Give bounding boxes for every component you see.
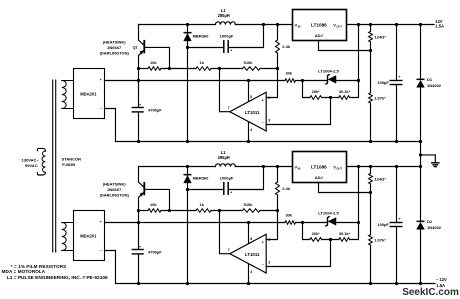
node switch node / MBR360 cathode (bottom) bbox=[186, 165, 189, 168]
node 510k/2.4k/pin2 junction (top) bbox=[276, 67, 279, 70]
svg-text:1000µF: 1000µF bbox=[220, 176, 234, 181]
svg-text:−: − bbox=[100, 107, 102, 111]
wire L1 to regulator Vin (bottom) bbox=[235, 166, 292, 168]
node pin8 supply junction (bottom) bbox=[247, 221, 250, 224]
node L1 output / 1000uF riser (bottom) bbox=[262, 165, 265, 168]
svg-text:8: 8 bbox=[250, 95, 252, 99]
pin 8 V+ (top) bbox=[248, 81, 250, 102]
svg-text:P-8685: P-8685 bbox=[62, 162, 76, 167]
resistor 30.1k* (top) bbox=[339, 96, 350, 100]
transformer T1 core bbox=[52, 80, 54, 252]
capacitor 100uF (bottom) bbox=[396, 167, 398, 222]
capacitor 4700uF (bottom) bbox=[132, 249, 144, 250]
resistor 510k (bottom) bbox=[243, 209, 261, 213]
wire regulator output (bottom) bbox=[347, 166, 421, 168]
svg-text:LT1086: LT1086 bbox=[311, 23, 327, 28]
node pin4 ground (top) bbox=[247, 140, 250, 143]
inductor L1 285uH (top) bbox=[215, 22, 235, 25]
svg-text:MDA201: MDA201 bbox=[80, 91, 97, 96]
wire switch node to L1 (top) bbox=[139, 24, 216, 26]
resistor 1.07k* (top) bbox=[370, 42, 372, 93]
svg-text:1k: 1k bbox=[200, 202, 205, 207]
node divider midpoint (top) bbox=[329, 96, 332, 99]
node pin8 supply junction (top) bbox=[247, 79, 250, 82]
svg-text:– 12V: – 12V bbox=[436, 277, 447, 282]
svg-text:4: 4 bbox=[250, 128, 252, 132]
node reference/anode junction (top) bbox=[357, 79, 360, 82]
wire ADJ (bottom) bbox=[319, 183, 371, 193]
wire regulator output (top) bbox=[347, 24, 435, 26]
node pin4 ground (bottom) bbox=[247, 282, 250, 285]
svg-text:LT1086: LT1086 bbox=[311, 165, 327, 170]
svg-text:30k: 30k bbox=[285, 212, 292, 217]
svg-text:1.07k*: 1.07k* bbox=[374, 95, 386, 100]
ground bbox=[421, 155, 436, 163]
svg-text:(DARLINGTON): (DARLINGTON) bbox=[100, 50, 130, 55]
node divider midpoint (bottom) bbox=[329, 238, 332, 241]
resistor 20k* (top) bbox=[310, 96, 322, 100]
resistor 10k (top) bbox=[148, 67, 161, 71]
diode MBR360 (top) bbox=[187, 25, 189, 142]
svg-text:10k: 10k bbox=[150, 202, 157, 207]
svg-text:IN: IN bbox=[298, 167, 301, 171]
diode D1 1N4002 bbox=[420, 25, 422, 79]
resistor 2.4k (bottom) bbox=[277, 167, 279, 183]
node switch node / MBR360 cathode (top) bbox=[186, 23, 189, 26]
node 1k/510k/comparator output junction (bottom) bbox=[218, 209, 221, 212]
resistor 1.07k* (bottom) bbox=[370, 184, 372, 235]
node 30k/LT1004/divider junction (bottom) bbox=[301, 221, 304, 224]
svg-text:+: + bbox=[230, 191, 232, 195]
wire V+ row from bridge (top) bbox=[105, 80, 286, 82]
transformer primary winding bbox=[42, 151, 45, 172]
svg-text:(HEATSINK): (HEATSINK) bbox=[103, 181, 126, 186]
svg-text:3: 3 bbox=[268, 260, 270, 264]
svg-text:2N6667: 2N6667 bbox=[107, 187, 122, 192]
svg-text:ADJ: ADJ bbox=[315, 33, 323, 38]
regulator LT1086 (bottom) bbox=[293, 152, 347, 183]
svg-text:20k*: 20k* bbox=[312, 231, 320, 236]
wire ground rail (mid) bbox=[116, 141, 421, 143]
svg-text:IN: IN bbox=[298, 25, 301, 29]
pin 4 V- (top) bbox=[248, 122, 250, 141]
wire divider row (top) bbox=[303, 81, 310, 98]
svg-text:+: + bbox=[230, 49, 232, 53]
inductor L1 285uH (bottom) bbox=[215, 164, 235, 167]
svg-text:7: 7 bbox=[228, 106, 230, 110]
svg-text:20k*: 20k* bbox=[312, 89, 320, 94]
svg-text:D1: D1 bbox=[427, 77, 433, 82]
node Vout riser (top) bbox=[357, 23, 360, 26]
node base/10k/1k junction (bottom) bbox=[168, 209, 171, 212]
wire bridge negative to ground rail (top) bbox=[105, 109, 116, 142]
node 100uF ground (bottom) bbox=[395, 282, 398, 285]
transformer secondary winding (top) bbox=[62, 81, 66, 109]
resistor 2.4k (top) bbox=[277, 25, 279, 41]
node 100uF ground (top) bbox=[395, 140, 398, 143]
node bridge+/Q emitter junction (top) bbox=[137, 79, 140, 82]
regulator LT1086 (top) bbox=[293, 10, 347, 41]
comparator LT1011 (bottom) bbox=[230, 234, 266, 273]
svg-text:−: − bbox=[262, 263, 264, 267]
svg-text:1k: 1k bbox=[200, 60, 205, 65]
wire -12V rail (bottom) bbox=[116, 283, 436, 285]
node 1.07k ground (bottom) bbox=[369, 282, 372, 285]
pin 4 V- (bottom) bbox=[248, 264, 250, 283]
transistor Q1 2N6667 PNP darlington (bottom) bbox=[139, 167, 145, 188]
resistor 124ohm (bottom) bbox=[370, 167, 372, 174]
capacitor 100uF (top) bbox=[396, 25, 398, 80]
svg-text:2: 2 bbox=[268, 238, 270, 242]
node 124ohm top (top) bbox=[369, 23, 372, 26]
svg-text:3: 3 bbox=[268, 118, 270, 122]
svg-text:D2: D2 bbox=[427, 219, 433, 224]
pin 3 -input (bottom) bbox=[266, 240, 330, 267]
capacitor 1000uF (bottom) bbox=[188, 189, 224, 191]
svg-text:30k: 30k bbox=[285, 70, 292, 75]
node 100uF top (top) bbox=[395, 23, 398, 26]
svg-text:1N4002: 1N4002 bbox=[427, 83, 442, 88]
wire ADJ (top) bbox=[319, 41, 371, 51]
svg-text:100µF: 100µF bbox=[377, 222, 389, 227]
svg-text:MDA201: MDA201 bbox=[80, 233, 97, 238]
node 1.07k ground (top) bbox=[369, 140, 372, 143]
svg-text:1.5A: 1.5A bbox=[435, 24, 444, 29]
wire L1 to regulator Vin (top) bbox=[235, 24, 292, 26]
diode D2 1N4002 bbox=[420, 167, 422, 221]
node 124ohm top (bottom) bbox=[369, 165, 372, 168]
svg-text:L1 = PULSE ENGINEERING, INC.: L1 = PULSE ENGINEERING, INC. # PE-92106 bbox=[7, 275, 108, 281]
node emitter/10k junction (top) bbox=[137, 67, 140, 70]
svg-text:130VAC~: 130VAC~ bbox=[22, 158, 40, 163]
svg-text:2: 2 bbox=[268, 96, 270, 100]
svg-text:1000µF: 1000µF bbox=[220, 34, 234, 39]
pin 3 -input (top) bbox=[266, 98, 330, 125]
svg-text:30.1k*: 30.1k* bbox=[339, 231, 351, 236]
svg-text:2.4k: 2.4k bbox=[282, 44, 291, 49]
diode MBR360 (bottom) bbox=[187, 167, 189, 284]
node bridge+/Q emitter junction (bottom) bbox=[137, 221, 140, 224]
svg-text:8: 8 bbox=[250, 237, 252, 241]
wire ground to bottom Vout bbox=[420, 142, 422, 167]
node ADJ/124ohm/1.07k junction (top) bbox=[369, 49, 372, 52]
pin 8 V+ (bottom) bbox=[248, 223, 250, 244]
svg-text:−: − bbox=[262, 121, 264, 125]
svg-text:1.07k*: 1.07k* bbox=[374, 237, 386, 242]
svg-text:30.1k*: 30.1k* bbox=[339, 89, 351, 94]
node 30k/LT1004/divider junction (top) bbox=[301, 79, 304, 82]
wire V+ row from bridge (bottom) bbox=[105, 222, 286, 224]
node ADJ/124ohm/1.07k junction (bottom) bbox=[369, 191, 372, 194]
svg-text:510k: 510k bbox=[244, 60, 253, 65]
svg-text:+: + bbox=[100, 78, 102, 82]
node 510k/2.4k/pin2 junction (bottom) bbox=[276, 209, 279, 212]
node Vout riser (bottom) bbox=[357, 165, 360, 168]
svg-text:7: 7 bbox=[228, 248, 230, 252]
svg-text:10k: 10k bbox=[150, 60, 157, 65]
resistor 30k (top) bbox=[285, 79, 296, 83]
svg-text:90VAC: 90VAC bbox=[25, 163, 38, 168]
node 1k/510k/comparator output junction (top) bbox=[218, 67, 221, 70]
svg-text:(DARLINGTON): (DARLINGTON) bbox=[100, 192, 130, 197]
node 100uF top (bottom) bbox=[395, 165, 398, 168]
svg-text:LT1004-2.5: LT1004-2.5 bbox=[318, 211, 339, 216]
node base/10k/1k junction (top) bbox=[168, 67, 171, 70]
svg-text:+: + bbox=[262, 241, 264, 245]
wire divider row (bottom) bbox=[303, 223, 310, 240]
resistor 1k (top) bbox=[196, 67, 211, 71]
wire bridge negative to ground rail (bottom) bbox=[105, 251, 116, 284]
node 2.4k top on switched wire (bottom) bbox=[276, 165, 279, 168]
capacitor 1000uF (top) bbox=[188, 47, 224, 49]
svg-text:4700µF: 4700µF bbox=[148, 249, 162, 254]
node 4700uF ground (bottom) bbox=[137, 282, 140, 285]
zener reference LT1004-2.5 (bottom) bbox=[326, 217, 329, 226]
node reference/anode junction (bottom) bbox=[357, 221, 360, 224]
svg-text:285µH: 285µH bbox=[218, 155, 230, 160]
wire switch node to L1 (bottom) bbox=[139, 166, 216, 168]
svg-text:OUT: OUT bbox=[337, 167, 343, 171]
svg-text:OUT: OUT bbox=[337, 25, 343, 29]
svg-text:+: + bbox=[139, 245, 141, 249]
comparator LT1011 (top) bbox=[230, 92, 266, 131]
node MBR360 ground (bottom) bbox=[186, 282, 189, 285]
node 2.4k top on switched wire (top) bbox=[276, 23, 279, 26]
resistor 510k (top) bbox=[243, 67, 261, 71]
svg-text:1N4002: 1N4002 bbox=[427, 225, 442, 230]
resistor 124ohm (top) bbox=[370, 25, 372, 32]
node D2 bottom rail bbox=[419, 282, 422, 285]
resistor 30k (bottom) bbox=[285, 221, 296, 225]
svg-text:4700µF: 4700µF bbox=[148, 107, 162, 112]
svg-text:+: + bbox=[399, 75, 401, 79]
svg-text:2N6667: 2N6667 bbox=[107, 45, 122, 50]
svg-text:MBR360: MBR360 bbox=[193, 34, 210, 39]
svg-text:100µF: 100µF bbox=[377, 80, 389, 85]
svg-text:+: + bbox=[399, 217, 401, 221]
node D1 top bbox=[419, 23, 422, 26]
svg-text:LT1011: LT1011 bbox=[245, 252, 260, 257]
node 4700uF ground (top) bbox=[137, 140, 140, 143]
svg-text:SeekIC.com: SeekIC.com bbox=[402, 287, 459, 298]
svg-text:MBR360: MBR360 bbox=[193, 176, 210, 181]
svg-text:Q1: Q1 bbox=[133, 46, 138, 50]
svg-text:124Ω*: 124Ω* bbox=[375, 35, 387, 40]
zener reference LT1004-2.5 (top) bbox=[326, 75, 329, 84]
svg-text:4: 4 bbox=[250, 270, 252, 274]
wire Vout to reference (bottom) bbox=[358, 167, 360, 223]
svg-text:ADJ: ADJ bbox=[315, 175, 323, 180]
svg-text:LT1004-2.5: LT1004-2.5 bbox=[318, 69, 339, 74]
wire resistor row (top) bbox=[139, 68, 149, 70]
svg-text:2.4k: 2.4k bbox=[282, 186, 291, 191]
svg-text:285µH: 285µH bbox=[218, 13, 230, 18]
resistor 20k* (bottom) bbox=[310, 238, 322, 242]
node L1 output / 1000uF riser (top) bbox=[262, 23, 265, 26]
node MBR360 ground (top) bbox=[186, 140, 189, 143]
svg-text:+: + bbox=[139, 103, 141, 107]
node emitter/10k junction (bottom) bbox=[137, 209, 140, 212]
svg-text:MDA = MOTOROLA: MDA = MOTOROLA bbox=[2, 269, 46, 274]
svg-text:STANCOR: STANCOR bbox=[62, 156, 82, 161]
bridge rectifier MDA201 (bottom) bbox=[74, 211, 105, 261]
pin 7 output (top) bbox=[220, 69, 230, 112]
node MBR360 anode / 1000uF (bottom) bbox=[186, 188, 189, 191]
capacitor 4700uF (top) bbox=[132, 107, 144, 108]
resistor 1k (bottom) bbox=[196, 209, 211, 213]
svg-text:LT1011: LT1011 bbox=[245, 110, 260, 115]
svg-text:+: + bbox=[100, 220, 102, 224]
resistor 30.1k* (bottom) bbox=[339, 238, 350, 242]
node MBR360 anode / 1000uF (top) bbox=[186, 46, 189, 49]
svg-text:−: − bbox=[100, 249, 102, 253]
bridge rectifier MDA201 (top) bbox=[74, 69, 105, 119]
transformer secondary winding (bottom) bbox=[62, 223, 66, 251]
svg-text:510k: 510k bbox=[244, 202, 253, 207]
node D1 ground / rail end bbox=[419, 140, 422, 143]
svg-text:(HEATSINK): (HEATSINK) bbox=[103, 39, 126, 44]
wire resistor row (bottom) bbox=[139, 210, 149, 212]
node bottom Vout/ground junction bbox=[419, 165, 422, 168]
pin 7 output (bottom) bbox=[220, 211, 230, 254]
svg-text:124Ω*: 124Ω* bbox=[375, 177, 387, 182]
wire Vout to reference (top) bbox=[358, 25, 360, 81]
svg-text:+: + bbox=[262, 99, 264, 103]
resistor 10k (bottom) bbox=[148, 209, 161, 213]
transistor Q1 2N6667 PNP darlington (top) bbox=[139, 25, 145, 46]
